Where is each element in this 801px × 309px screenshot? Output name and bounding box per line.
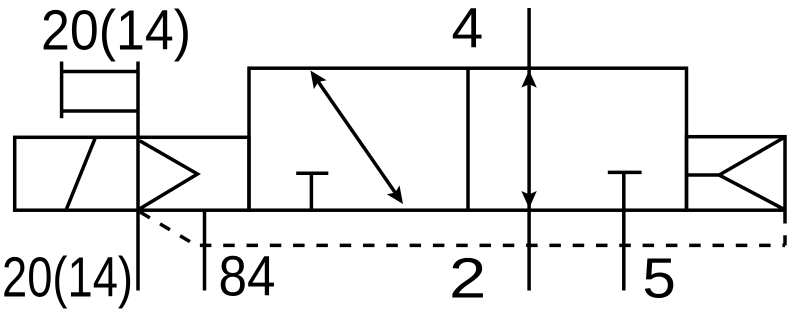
- svg-text:84: 84: [219, 245, 276, 309]
- svg-text:2: 2: [449, 247, 486, 309]
- svg-text:4: 4: [452, 0, 484, 61]
- svg-text:20(14): 20(14): [41, 0, 191, 62]
- svg-text:5: 5: [642, 247, 676, 309]
- svg-text:20(14): 20(14): [2, 245, 133, 309]
